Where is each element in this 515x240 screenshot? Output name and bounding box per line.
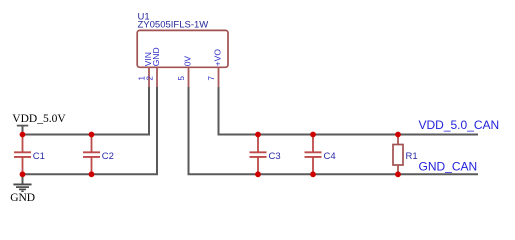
node junction CAN GND rail / C4 bbox=[310, 171, 316, 177]
svg-text:C4: C4 bbox=[324, 151, 336, 162]
pin 2 stub bbox=[156, 67, 158, 87]
wire: pin 2 down to left ground rail bbox=[23, 87, 158, 174]
wire: pin 5 down to right ground rail bbox=[189, 87, 479, 174]
wire: pin 7 to top-right rail bbox=[219, 87, 479, 135]
node junction CAN VDD rail / C3 bbox=[255, 132, 261, 138]
node junction VDD rail / C2 bbox=[89, 132, 95, 138]
capacitor C2 bbox=[83, 135, 114, 175]
node junction GND rail / C1 bbox=[20, 171, 26, 177]
node junction VDD rail / C1 bbox=[20, 132, 26, 138]
wire: top-left rail VDD_5.0V to pin 1 bbox=[23, 87, 150, 135]
svg-text:R1: R1 bbox=[406, 151, 418, 162]
svg-text:GND: GND bbox=[10, 192, 35, 204]
pin 7 stub bbox=[218, 67, 220, 87]
node junction CAN VDD rail / R1 bbox=[395, 132, 401, 138]
svg-text:VDD_5.0_CAN: VDD_5.0_CAN bbox=[419, 118, 500, 132]
resistor R1 bbox=[393, 135, 418, 175]
wire: power port stub bbox=[22, 126, 24, 135]
svg-text:ZY0505IFLS-1W: ZY0505IFLS-1W bbox=[138, 20, 209, 31]
svg-text:C3: C3 bbox=[269, 151, 281, 162]
power port VDD_5.0V bbox=[12, 113, 66, 126]
capacitor C4 bbox=[305, 135, 336, 175]
U1 body bbox=[137, 30, 228, 67]
svg-text:C1: C1 bbox=[33, 151, 45, 162]
capacitor C3 bbox=[250, 135, 281, 175]
ground GND bbox=[10, 184, 35, 203]
node junction CAN GND rail / C3 bbox=[255, 171, 261, 177]
node junction CAN VDD rail / C4 bbox=[310, 132, 316, 138]
svg-text:2: 2 bbox=[146, 76, 155, 81]
svg-text:5: 5 bbox=[177, 76, 186, 81]
node junction CAN GND rail / R1 bbox=[395, 171, 401, 177]
wire: ground stub bbox=[22, 174, 24, 184]
svg-text:+VO: +VO bbox=[212, 49, 222, 67]
capacitor C1 bbox=[14, 135, 45, 175]
svg-text:GND: GND bbox=[151, 47, 161, 66]
svg-text:GND_CAN: GND_CAN bbox=[419, 159, 478, 173]
pin 5 stub bbox=[188, 67, 190, 87]
pin 1 stub bbox=[148, 67, 150, 87]
svg-text:C2: C2 bbox=[102, 151, 114, 162]
node junction GND rail / C2 bbox=[89, 171, 95, 177]
svg-text:0V: 0V bbox=[182, 56, 192, 67]
svg-text:VDD_5.0V: VDD_5.0V bbox=[12, 113, 66, 125]
svg-text:7: 7 bbox=[207, 76, 216, 81]
